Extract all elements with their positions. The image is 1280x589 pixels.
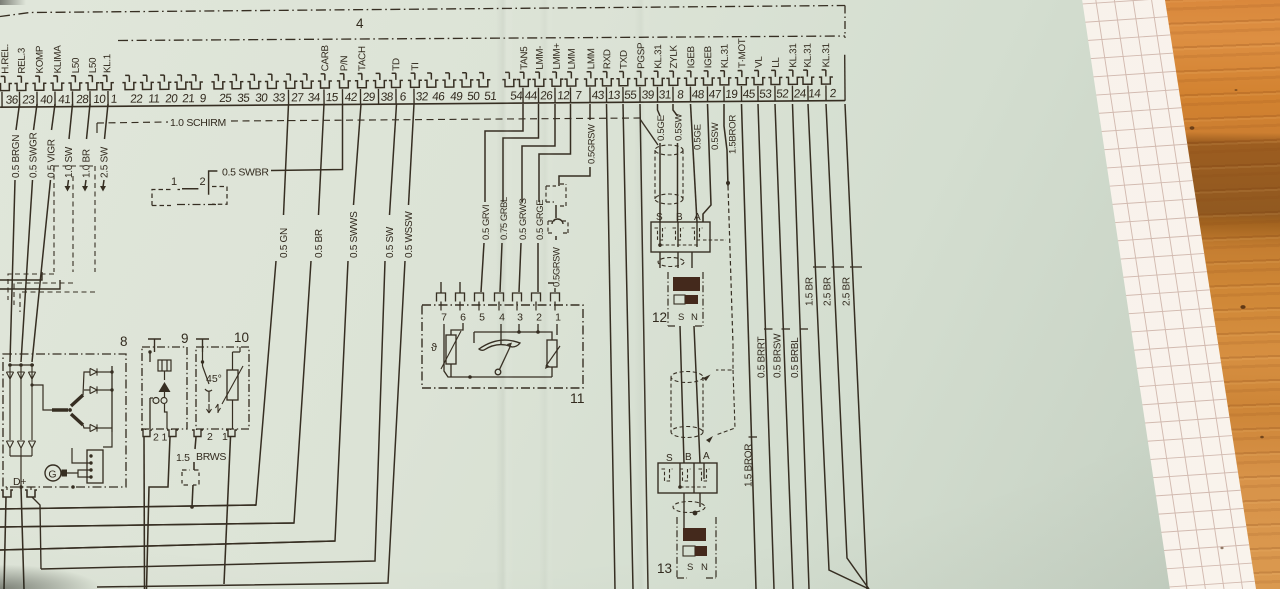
svg-text:0.5 BRRT: 0.5 BRRT <box>757 336 768 378</box>
pin 23 hook <box>14 76 28 90</box>
wire 2.5 SW arrow into shield <box>103 180 104 187</box>
svg-text:L50: L50 <box>88 57 99 73</box>
svg-text:6: 6 <box>460 312 466 324</box>
component 9 pin wires down <box>143 437 146 589</box>
component 12 grommet boot dashed <box>655 145 683 155</box>
generator box 8 dash-dot <box>3 354 126 487</box>
svg-text:0.5 SWGR: 0.5 SWGR <box>29 133 40 178</box>
wire 0.5 BRBL <box>793 104 810 589</box>
pin 31 separator/wire stub <box>656 87 658 102</box>
component 13 ignition unit dash-dot box <box>677 517 716 578</box>
svg-text:1.5 BR: 1.5 BR <box>805 277 816 306</box>
pin 15 separator/wire stub <box>323 89 325 104</box>
pin 20 hook <box>157 75 171 89</box>
component 9 box dash-dot <box>142 347 187 429</box>
component 11 air-flow meter box <box>422 305 583 388</box>
relay 12 socket pin at 697 <box>692 228 703 240</box>
frame border second dash-dot line <box>118 36 845 41</box>
pin 28 separator/wire stub <box>71 91 73 106</box>
connector strip base line <box>0 101 845 108</box>
long wire from x=606.5 <box>607 104 616 589</box>
AFM pin 3 box terminal <box>513 293 522 302</box>
svg-text:19: 19 <box>725 87 739 101</box>
svg-text:0.5GRSW: 0.5GRSW <box>551 247 562 287</box>
svg-text:53: 53 <box>759 87 773 101</box>
component 10 thermo switch <box>203 352 213 402</box>
svg-text:2.5 SW: 2.5 SW <box>100 146 111 178</box>
AFM intake temp resistor <box>446 335 456 364</box>
component 10 arrows <box>207 404 221 413</box>
svg-text:3: 3 <box>517 312 523 324</box>
svg-text:KL.31: KL.31 <box>653 45 664 69</box>
pin 30 hook <box>247 74 261 88</box>
pin 9 hook <box>189 75 203 89</box>
svg-text:0.5 GRGE: 0.5 GRGE <box>534 200 545 240</box>
AFM pin 7 box terminal <box>437 293 446 302</box>
pin 55 hook <box>616 71 630 85</box>
svg-text:D+: D+ <box>13 476 26 488</box>
pin 40 separator/wire stub <box>36 92 38 107</box>
wire 0.5 BRGN <box>16 104 20 130</box>
relay 12 socket pin at 660 <box>655 228 666 240</box>
component 10 NTC resistor <box>227 370 238 400</box>
svg-text:42: 42 <box>344 90 357 104</box>
wire 0.5 GRWS <box>522 104 555 202</box>
wire 0.75 GRBL <box>503 104 539 202</box>
svg-text:43: 43 <box>591 88 605 102</box>
wire 1.5 BROR right continuous <box>742 104 757 589</box>
pin 31 hook <box>651 71 665 85</box>
svg-text:ϑ: ϑ <box>431 342 437 354</box>
svg-text:21: 21 <box>182 91 195 105</box>
wire 0.5 VIGR lower segment to generator <box>32 180 51 362</box>
svg-text:KLIMA: KLIMA <box>53 45 64 74</box>
svg-text:REL.3: REL.3 <box>17 47 28 74</box>
pin 43 separator/wire stub <box>589 87 591 102</box>
wire 0.5 BR to bottom rail <box>0 261 311 527</box>
generator lower bus <box>10 456 32 487</box>
wire 0.5 BR <box>319 104 325 215</box>
svg-text:7: 7 <box>441 312 447 324</box>
AFM pin 7/6 stubs above <box>440 282 442 293</box>
svg-text:0.5GE: 0.5GE <box>693 124 704 150</box>
component 12 wires 0.5GE 0.5SW pair 1 <box>658 104 661 116</box>
svg-text:8: 8 <box>120 334 128 349</box>
pin 39 hook <box>634 71 648 85</box>
wire 0.5 SW to bottom rail <box>41 261 385 569</box>
stub from rail D to generator terminal <box>32 497 41 569</box>
pin 28 hook <box>68 76 82 90</box>
svg-text:11: 11 <box>148 91 160 105</box>
pin 41 separator/wire stub <box>54 91 56 106</box>
svg-text:25: 25 <box>219 91 233 105</box>
pin 14 separator/wire stub <box>807 86 809 101</box>
svg-text:KL.31: KL.31 <box>821 43 832 67</box>
AFM pin number 7 <box>440 305 442 311</box>
component 12 ignition unit dash-dot box <box>668 272 703 326</box>
svg-text:48: 48 <box>691 87 705 101</box>
wire 0.5 GRWS to AFM pin <box>519 243 521 292</box>
svg-text:IGEB: IGEB <box>686 45 697 68</box>
svg-text:28: 28 <box>76 92 90 106</box>
generator diode top at 10 <box>9 365 11 440</box>
AFM wiper arm <box>495 369 501 375</box>
AFM bottom rail <box>444 324 552 377</box>
svg-text:1: 1 <box>162 432 168 444</box>
svg-text:LL: LL <box>771 57 782 68</box>
generator diode bottom at 10 <box>6 441 13 448</box>
pin 48 separator/wire stub <box>689 86 691 101</box>
svg-text:2: 2 <box>207 431 213 443</box>
svg-text:8: 8 <box>677 87 685 101</box>
svg-text:50: 50 <box>467 89 481 103</box>
shield dashed enclosure around thick wires <box>54 166 95 272</box>
svg-text:H.REL.: H.REL. <box>0 44 11 74</box>
svg-text:0.5GRSW: 0.5GRSW <box>586 124 597 164</box>
svg-text:32: 32 <box>415 89 428 103</box>
pin 25 hook <box>211 75 225 89</box>
pin 45 hook <box>735 70 749 84</box>
svg-text:TXD: TXD <box>619 50 630 69</box>
wire 0.5 SWWS to bottom rail <box>0 261 348 550</box>
pin 2 hook <box>819 70 833 84</box>
svg-text:BRWS: BRWS <box>196 451 226 463</box>
AFM pin number 4 <box>498 305 500 311</box>
AFM pin number 6 <box>459 305 461 311</box>
relay 13 socket pin at 667 <box>662 469 673 481</box>
pin 27 separator/wire stub <box>287 90 289 105</box>
bottom rail B <box>0 523 294 527</box>
wire 0.5 GRGE <box>539 104 571 202</box>
svg-text:A: A <box>703 451 710 462</box>
svg-text:1.5 BROR: 1.5 BROR <box>744 444 755 487</box>
component 12 dark block <box>673 277 700 291</box>
pin 7 hook <box>564 72 578 86</box>
AFM pin number 3 <box>516 305 518 311</box>
svg-text:0.75 GRBL: 0.75 GRBL <box>498 197 509 240</box>
pin 19 separator/wire stub <box>723 86 725 101</box>
pin 44 hook <box>517 72 531 86</box>
svg-text:23: 23 <box>22 92 36 106</box>
pin 29 separator/wire stub <box>359 89 361 104</box>
pin 1 hook <box>100 75 114 89</box>
wire 0.5 GRVI to AFM pin <box>481 243 484 292</box>
pin 46 hook <box>424 73 438 87</box>
wire 0.5 SWGR <box>34 104 38 130</box>
AFM pin 6 box terminal <box>456 293 465 302</box>
svg-text:0.5 BRBL: 0.5 BRBL <box>790 337 801 378</box>
svg-text:41: 41 <box>58 92 71 106</box>
pin 32 separator/wire stub <box>413 89 415 104</box>
svg-text:44: 44 <box>524 88 538 102</box>
wire 0.5 BRGN lower segment to generator <box>10 180 15 362</box>
svg-text:52: 52 <box>776 87 789 101</box>
dark sliver top-left <box>0 0 26 5</box>
wire 0.5 GRGE to AFM pin <box>537 243 539 292</box>
svg-text:4: 4 <box>499 312 505 324</box>
svg-text:6: 6 <box>399 89 407 103</box>
svg-text:LMM: LMM <box>567 48 578 69</box>
wire 1.0 BR arrow into shield <box>85 180 86 187</box>
component 13 indicator blocks <box>683 546 695 556</box>
svg-text:12: 12 <box>652 310 667 325</box>
wire 0.5 SWWS <box>354 104 362 205</box>
pin 19 hook <box>717 71 731 85</box>
svg-text:0.5 BR: 0.5 BR <box>314 229 325 258</box>
generator bottom terminals <box>1 490 13 497</box>
svg-text:P/N: P/N <box>339 55 350 71</box>
relay 12 A-pin dashed link to BROR <box>703 239 726 241</box>
wire 0.5 GRVI <box>485 104 523 202</box>
wood table background <box>941 0 1280 589</box>
wire 2.5 BR outer <box>845 104 867 589</box>
pin 15 hook <box>318 74 332 88</box>
generator input bus <box>10 364 34 366</box>
pin 47 separator/wire stub <box>706 86 708 101</box>
svg-text:1.5BROR: 1.5BROR <box>728 115 739 154</box>
svg-text:0.5SW: 0.5SW <box>673 112 684 141</box>
AFM pin 4 box terminal <box>495 293 504 302</box>
shield solid return wires <box>0 272 60 289</box>
svg-text:47: 47 <box>708 87 721 101</box>
pin 10 separator/wire stub <box>89 91 91 106</box>
svg-text:1.0 SW: 1.0 SW <box>64 146 75 178</box>
pin 53 separator/wire stub <box>757 86 759 101</box>
wire 1.0 BR <box>87 104 91 139</box>
svg-text:IGEB: IGEB <box>703 45 714 68</box>
svg-text:7: 7 <box>575 88 582 102</box>
svg-text:15: 15 <box>325 90 339 104</box>
wire 0.75 GRBL to AFM pin <box>500 243 502 292</box>
svg-text:33: 33 <box>272 90 286 104</box>
wire 1.0 SW arrow into shield <box>68 180 69 187</box>
svg-text:24: 24 <box>793 86 807 100</box>
svg-text:0.5 WSSW: 0.5 WSSW <box>404 211 415 258</box>
svg-text:26: 26 <box>540 88 554 102</box>
AFM load resistor with adjust arrow <box>547 340 557 367</box>
pin 39 separator/wire stub <box>639 87 641 102</box>
component 13 upper boot dashed <box>671 372 703 383</box>
svg-text:VL: VL <box>754 56 765 68</box>
svg-text:30: 30 <box>255 91 269 105</box>
svg-text:1: 1 <box>222 431 228 443</box>
pin 26 separator/wire stub <box>537 88 539 103</box>
pin 8 separator/wire stub <box>672 87 674 102</box>
pin 42 hook <box>337 74 351 88</box>
AFM wiring pin6 to resistor <box>451 323 463 377</box>
svg-text:22: 22 <box>130 92 143 106</box>
svg-text:TAN5: TAN5 <box>519 46 530 70</box>
wire 0.5 SW <box>390 104 397 215</box>
generator diode bottom at 32 <box>28 441 35 448</box>
svg-text:1: 1 <box>171 176 177 188</box>
generator diode top at 21 <box>20 365 22 440</box>
svg-text:1.0 BR: 1.0 BR <box>82 149 93 178</box>
svg-text:13: 13 <box>657 561 672 576</box>
terminal block <box>87 450 103 483</box>
svg-text:27: 27 <box>291 90 304 104</box>
bottom rail A <box>0 505 256 509</box>
pin 1 separator/wire stub <box>107 91 109 106</box>
dashed connector square <box>182 470 199 485</box>
pin 49 hook <box>442 73 456 87</box>
pin 45 separator/wire stub <box>740 86 742 101</box>
pin 52 hook <box>768 70 782 84</box>
pin 53 hook <box>751 70 765 84</box>
pin 51 hook <box>476 73 490 87</box>
pin 47 hook <box>701 71 715 85</box>
svg-text:10: 10 <box>93 92 107 106</box>
svg-text:51: 51 <box>484 89 497 103</box>
long wire from x=640 <box>640 104 648 589</box>
connector strip right end bar <box>844 55 846 101</box>
generator G symbol <box>45 465 61 481</box>
pin 36 separator/wire stub <box>1 92 3 107</box>
component 10 supply T-bar <box>196 339 209 352</box>
svg-text:31: 31 <box>658 87 671 101</box>
svg-text:L50: L50 <box>71 57 82 73</box>
svg-text:KL.31: KL.31 <box>720 44 731 68</box>
component 10 pin2 wire through label <box>194 437 196 470</box>
svg-text:0.5 SW: 0.5 SW <box>385 226 396 258</box>
wire 0.5 GRSW from pin 43 <box>589 104 591 120</box>
svg-text:0.5 BRSW: 0.5 BRSW <box>773 333 784 378</box>
AFM pin4 drop <box>500 324 502 345</box>
pin 40 hook <box>32 76 46 90</box>
svg-text:9: 9 <box>181 331 189 346</box>
wire 0.5 VIGR <box>52 104 56 130</box>
svg-text:2.5 BR: 2.5 BR <box>823 277 834 306</box>
component 12 wires 0.5GE 0.5SW pair 2 <box>691 104 698 222</box>
svg-text:S: S <box>678 312 684 323</box>
svg-text:G: G <box>48 469 56 481</box>
svg-text:36: 36 <box>5 93 19 107</box>
svg-text:T·MOT: T·MOT <box>737 38 748 68</box>
wire 1.0 SW <box>69 104 73 139</box>
wire 0.5 SWBR <box>209 171 218 195</box>
svg-text:0.5 BRGN: 0.5 BRGN <box>11 135 22 178</box>
long wire from x=623 <box>623 104 633 589</box>
svg-text:CARB: CARB <box>320 44 331 71</box>
pin 2 separator/wire stub <box>825 85 827 100</box>
frame border corner vertical <box>844 6 846 39</box>
svg-text:0.5GE: 0.5GE <box>656 115 667 141</box>
pin 44 separator/wire stub <box>522 88 524 103</box>
wire 2.5 SW <box>105 104 109 139</box>
AFM potentiometer track crescent <box>479 340 520 350</box>
graph paper grid <box>1040 0 1131 589</box>
ECU connector strip with 48 numbered pins <box>0 37 845 107</box>
pin 33 hook <box>265 74 279 88</box>
bottom rail C <box>0 541 335 550</box>
pin 50 hook <box>459 73 473 87</box>
svg-text:46: 46 <box>432 89 446 103</box>
wire 0.5 BRSW <box>775 104 793 589</box>
pin 55 separator/wire stub <box>622 87 624 102</box>
svg-text:RXD: RXD <box>602 49 613 69</box>
component 10 pin1 wire down <box>224 437 231 584</box>
svg-text:14: 14 <box>808 86 822 100</box>
svg-text:N: N <box>701 562 708 573</box>
svg-text:TACH: TACH <box>357 46 368 71</box>
pin 52 separator/wire stub <box>774 86 776 101</box>
shield net label 1.0 SCHIRM dashed line <box>97 122 168 123</box>
svg-text:11: 11 <box>570 390 585 406</box>
svg-text:49: 49 <box>450 89 464 103</box>
wires below generator <box>4 497 6 589</box>
svg-text:2: 2 <box>153 432 159 444</box>
long wires pins 43 13 55 39 <box>589 166 591 168</box>
component 13 lower boot <box>673 502 705 513</box>
svg-text:0.5 SWBR: 0.5 SWBR <box>222 167 269 179</box>
wire 0.5 GN to bottom rail <box>0 261 276 509</box>
svg-text:KL.31: KL.31 <box>803 43 814 67</box>
pin 36 hook <box>0 76 12 90</box>
pin 13 separator/wire stub <box>605 87 607 102</box>
AFM pin2 drop <box>537 324 539 332</box>
component 12 wires through boot <box>660 143 678 222</box>
relay 12 socket pin at 678 <box>673 228 684 240</box>
pin 29 hook <box>355 73 369 87</box>
svg-text:5: 5 <box>479 312 485 324</box>
svg-text:PGSP: PGSP <box>636 42 647 69</box>
pin 22 hook <box>122 75 136 89</box>
pin 34 hook <box>300 74 314 88</box>
AFM pin 2 box terminal <box>532 293 541 302</box>
pin 41 hook <box>50 76 64 90</box>
AFM pin number 5 <box>478 305 480 311</box>
pin 42 separator/wire stub <box>341 89 343 104</box>
svg-text:TD: TD <box>391 58 402 71</box>
label 0.5GRSW lower <box>555 236 557 240</box>
pin 13 hook <box>600 72 614 86</box>
component 9 valve heater grid <box>158 360 171 371</box>
generator diode bottom at 21 <box>17 441 24 448</box>
generator diode top at 32 <box>31 365 33 440</box>
wire 0.5 WSSW <box>409 104 415 205</box>
svg-text:29: 29 <box>362 90 376 104</box>
AFM pin number 2 <box>535 305 537 311</box>
svg-text:1.5: 1.5 <box>176 452 190 464</box>
pin 24 separator/wire stub <box>791 86 793 101</box>
pin 35 hook <box>229 74 243 88</box>
svg-text:39: 39 <box>641 88 655 102</box>
svg-text:38: 38 <box>380 90 394 104</box>
svg-text:0.5 GRWS: 0.5 GRWS <box>517 198 528 240</box>
svg-text:KL.31: KL.31 <box>788 43 799 67</box>
pin 24 hook <box>786 70 800 84</box>
svg-text:1.0 SCHIRM: 1.0 SCHIRM <box>170 117 226 129</box>
svg-text:ZYLK: ZYLK <box>669 44 680 68</box>
svg-text:9: 9 <box>199 91 207 105</box>
wire 2.5 BR with bend <box>826 104 869 589</box>
svg-text:2: 2 <box>200 176 206 188</box>
output bus vertical <box>111 366 113 432</box>
wire 0.5 WSSW to bottom rail <box>97 261 405 587</box>
wire 1.5 BR with bend <box>808 104 869 589</box>
shield drain diagonal to ground wire <box>640 119 658 145</box>
pin 38 separator/wire stub <box>377 89 379 104</box>
svg-text:20: 20 <box>165 91 179 105</box>
pin 11 hook <box>140 75 154 89</box>
pin 21 hook <box>174 75 188 89</box>
output diodes right <box>90 368 97 375</box>
AFM pin 5 box terminal <box>475 293 484 302</box>
svg-text:35: 35 <box>237 91 251 105</box>
pin 6 separator/wire stub <box>395 89 397 104</box>
AFM pin1 drop <box>556 324 558 335</box>
component 10 box dash-dot <box>196 347 249 429</box>
